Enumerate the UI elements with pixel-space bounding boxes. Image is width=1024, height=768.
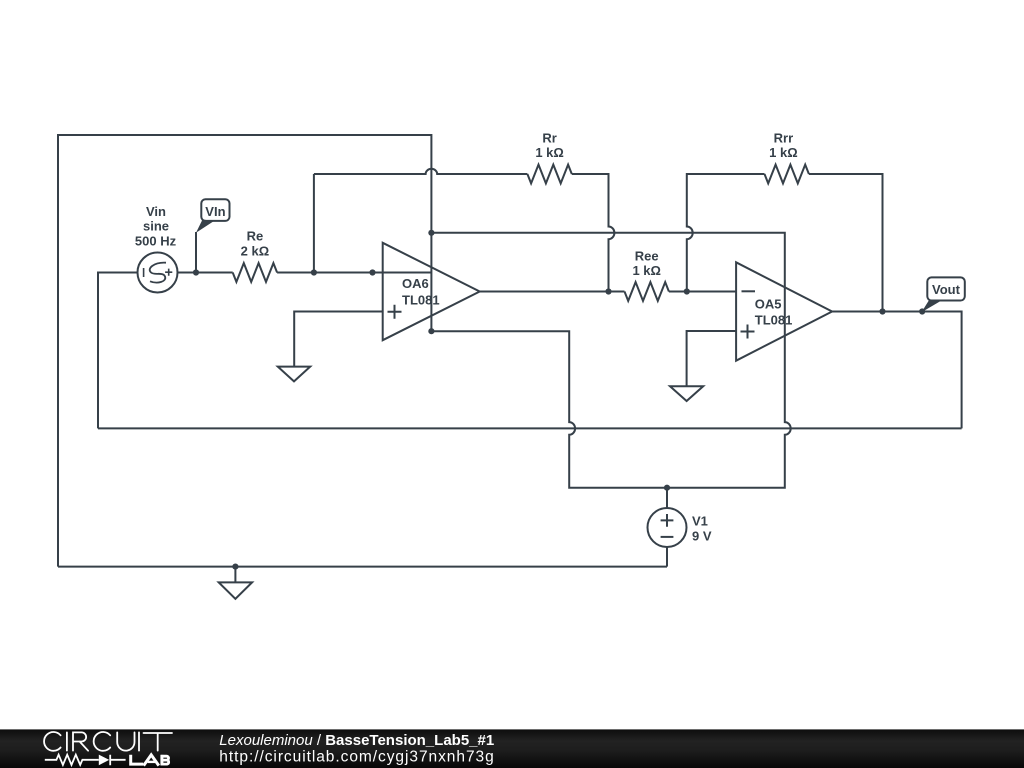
wire: row y=232.8, down right side with hops over y=428.4, supply loop back to (431,331) — [431, 233, 790, 488]
wire: V1 bottom stub — [666, 547, 668, 567]
resistor Rr — [527, 165, 571, 184]
svg-text:V1: V1 — [692, 514, 708, 529]
wire: Vin right lead to Re and into OA6 minus input — [178, 272, 432, 274]
logo resistor-diode glyph — [45, 755, 126, 766]
op-amp OA6 plus symbol — [388, 305, 402, 319]
svg-text:1 kΩ: 1 kΩ — [632, 263, 661, 278]
op-amp OA5 plus symbol — [741, 325, 755, 339]
wire: V1 top stub — [666, 488, 668, 508]
svg-text:OA6: OA6 — [402, 276, 429, 291]
wire: vertical x=686.8 Rrr left leg, hop over row y=232.8 — [687, 174, 765, 292]
node dot (196,272.5) — [193, 269, 199, 275]
wire: vertical x=314 from Rr row to input row — [313, 174, 315, 273]
svg-text:9 V: 9 V — [692, 528, 712, 543]
svg-text:OA5: OA5 — [755, 296, 782, 311]
logo CIRCUIT lettering — [44, 732, 172, 751]
wire: OA5 output row to right edge and down — [832, 312, 962, 429]
wire: Vin left lead down to feedback row (98,428.4)-(98,272.5)-(137.5,272.5) — [98, 273, 138, 429]
svg-text:sine: sine — [143, 219, 169, 234]
flag Vout tail — [922, 299, 942, 312]
flag VIn box — [201, 199, 229, 221]
flag Vout box — [927, 277, 965, 300]
node dot (667,487.7) V1 top — [664, 485, 670, 491]
svg-text:1 kΩ: 1 kΩ — [535, 145, 564, 160]
node dot (431.4,232.8) — [428, 230, 434, 236]
svg-text:VIn: VIn — [205, 204, 225, 219]
wire: VIn flag stub — [195, 232, 197, 273]
node dot (235.4,566.6) ground tap — [232, 564, 238, 570]
svg-text:Ree: Ree — [635, 248, 659, 263]
op-amp U2 OA5 triangle — [736, 262, 832, 360]
wire: Rr right lead down to Ree node, hop over row y=232.8 — [572, 174, 615, 292]
ground (OA5 plus) — [670, 386, 703, 401]
ground (bottom rail) — [219, 567, 252, 599]
svg-text:TL081: TL081 — [755, 312, 793, 327]
wire: OA6 output row to Ree — [480, 291, 736, 293]
op-amp OA5 minus symbol — [742, 290, 756, 292]
node dot (431.4,331.2) — [428, 328, 434, 334]
svg-text:Vin: Vin — [146, 204, 166, 219]
voltage source Vin sine glyph — [150, 263, 166, 283]
svg-text:Rrr: Rrr — [774, 130, 794, 145]
ground (OA6 plus) — [278, 367, 310, 382]
svg-text:Rr: Rr — [542, 130, 556, 145]
wire: Rrr right lead down to output row — [809, 174, 883, 312]
svg-text:Lexouleminou / BasseTension_La: Lexouleminou / BasseTension_Lab5_#1 — [219, 732, 494, 749]
voltage source Vin circle — [138, 253, 178, 293]
voltage source Vin plus mark — [165, 269, 172, 276]
voltage source Vin minus mark — [143, 268, 145, 277]
wire: ground net top-left loop (58,566)-(58,135)-(431,135)-(431,331) — [58, 135, 431, 567]
svg-text:1 kΩ: 1 kΩ — [769, 145, 798, 160]
voltage source V1 circle — [648, 508, 687, 547]
node dot (882.5,311.5) — [879, 308, 885, 314]
resistor Ree — [625, 282, 669, 301]
node dot (686.8,291.5) — [684, 288, 690, 294]
node dot (608.5,291.5) — [605, 288, 611, 294]
svg-text:TL081: TL081 — [402, 292, 440, 307]
wire: OA6 plus input to ground — [294, 312, 383, 367]
flag VIn tail — [196, 220, 214, 233]
footer bar — [0, 729, 1024, 768]
resistor Rrr — [765, 165, 809, 184]
svg-text:Re: Re — [247, 229, 264, 244]
svg-text:2 kΩ: 2 kΩ — [241, 243, 270, 258]
voltage source V1 plus mark — [661, 514, 674, 527]
wire: Rr row with hop over x=431.4 — [314, 169, 528, 174]
wire: bottom ground rail y=566.6 — [58, 566, 667, 568]
resistor Re — [233, 263, 277, 282]
wire: OA5 plus input to ground — [687, 331, 737, 386]
node dot (313.9,272.5) — [311, 269, 317, 275]
logo diode triangle — [99, 755, 109, 766]
svg-text:500 Hz: 500 Hz — [135, 233, 177, 248]
svg-text:Vout: Vout — [932, 282, 961, 297]
op-amp U1 OA6 triangle — [383, 243, 480, 340]
svg-text:http://circuitlab.com/cygj37nx: http://circuitlab.com/cygj37nxnh73g — [219, 749, 494, 766]
node dot (922.2,311.5) Vout tap — [919, 308, 925, 314]
wire: feedback row y=428.4 — [98, 427, 962, 429]
logo LAB text — [131, 755, 169, 766]
node dot (372.5,272.5) OA6 minus pin — [369, 269, 375, 275]
voltage source V1 minus mark — [661, 536, 674, 538]
